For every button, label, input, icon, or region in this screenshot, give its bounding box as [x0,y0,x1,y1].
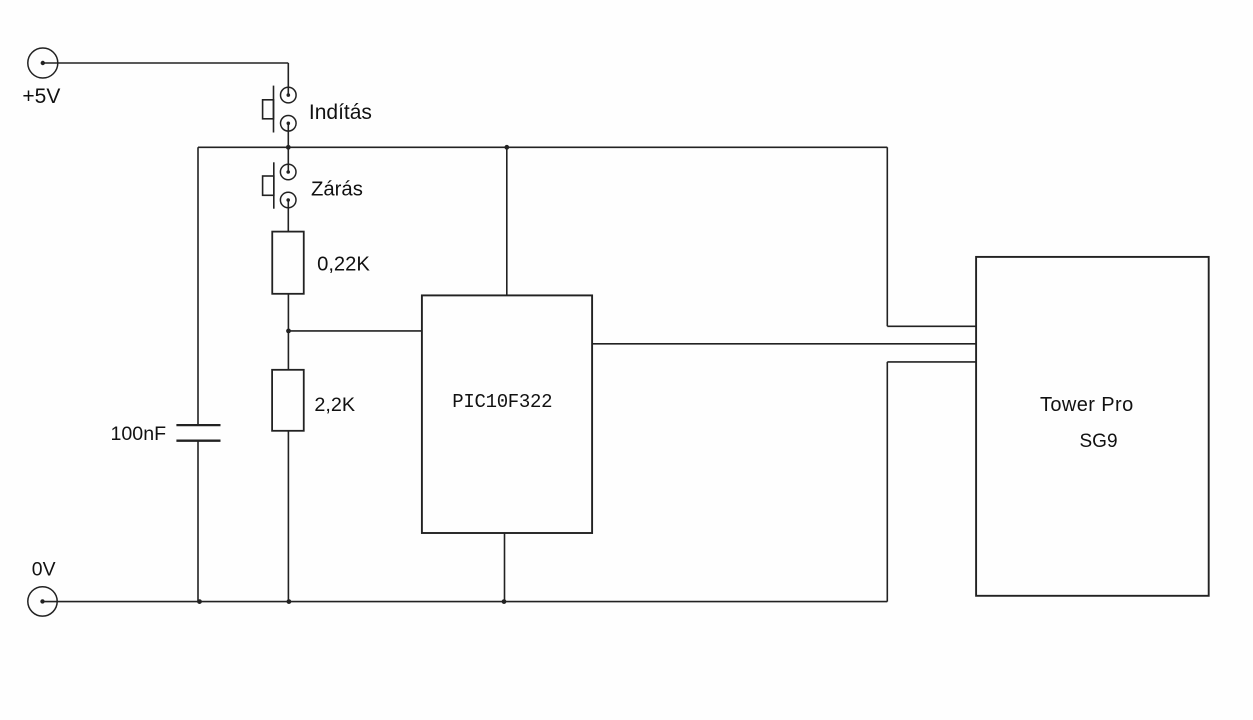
svg-text:Indítás: Indítás [309,101,372,124]
svg-text:SG9: SG9 [1080,431,1118,452]
svg-text:2,2K: 2,2K [314,394,355,416]
svg-text:0,22K: 0,22K [317,253,370,275]
svg-text:PIC10F322: PIC10F322 [452,391,552,413]
svg-text:0V: 0V [32,559,56,581]
svg-text:Tower Pro: Tower Pro [1040,394,1134,416]
svg-text:Zárás: Zárás [311,178,363,200]
svg-text:100nF: 100nF [111,423,167,445]
svg-text:+5V: +5V [22,85,60,108]
